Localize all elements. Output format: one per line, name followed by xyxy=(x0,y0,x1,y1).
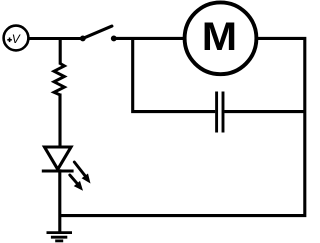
svg-text:V: V xyxy=(12,32,21,46)
svg-text:M: M xyxy=(202,15,237,59)
